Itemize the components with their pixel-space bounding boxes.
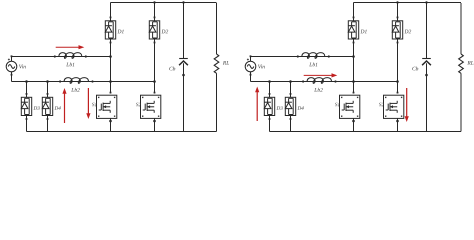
svg-text:S2: S2 bbox=[136, 102, 142, 108]
svg-text:Lb2: Lb2 bbox=[313, 88, 323, 94]
svg-text:S1: S1 bbox=[335, 102, 341, 108]
svg-text:Vin: Vin bbox=[19, 64, 27, 70]
svg-text:RL: RL bbox=[222, 61, 229, 67]
svg-text:D3: D3 bbox=[32, 106, 40, 112]
svg-text:D1: D1 bbox=[116, 29, 124, 35]
svg-text:Lb2: Lb2 bbox=[70, 88, 80, 94]
svg-text:D3: D3 bbox=[275, 106, 283, 112]
svg-text:Cb: Cb bbox=[169, 66, 176, 72]
svg-text:Cb: Cb bbox=[412, 66, 419, 72]
svg-text:Lb1: Lb1 bbox=[308, 62, 318, 68]
svg-text:D2: D2 bbox=[403, 29, 411, 35]
svg-text:D1: D1 bbox=[359, 29, 367, 35]
svg-text:RL: RL bbox=[466, 61, 473, 67]
svg-text:Vin: Vin bbox=[258, 64, 266, 70]
svg-text:D4: D4 bbox=[53, 105, 61, 112]
svg-text:D2: D2 bbox=[160, 29, 168, 35]
svg-text:D4: D4 bbox=[296, 105, 304, 112]
svg-text:Lb1: Lb1 bbox=[65, 62, 75, 68]
svg-text:S1: S1 bbox=[92, 102, 98, 108]
svg-text:S2: S2 bbox=[379, 102, 385, 108]
